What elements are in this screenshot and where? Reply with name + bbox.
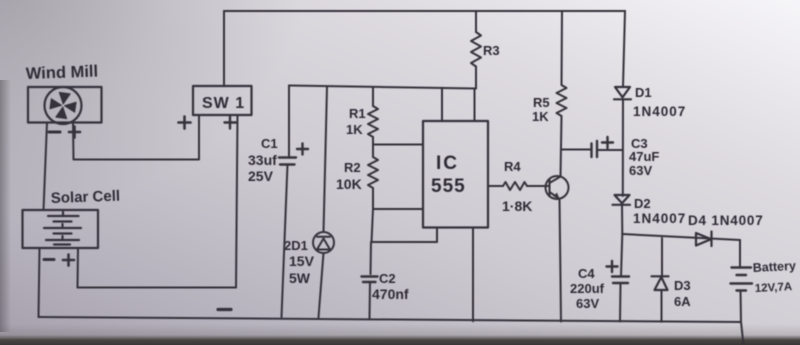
wire D-chain top [623,11,625,87]
svg-text:2D1: 2D1 [284,238,308,253]
wire mid rail [289,86,476,89]
svg-text:IC: IC [436,153,459,174]
resistor R5 [557,85,567,116]
wire windmill minus to solar [44,123,48,211]
svg-text:1K: 1K [346,122,363,137]
wire junction to IC pin [373,144,423,146]
wire D3 drop [661,238,663,276]
svg-text:15V: 15V [289,253,315,269]
svg-text:D3: D3 [674,278,691,293]
svg-text:Battery: Battery [752,259,796,275]
diode D2 [613,195,631,205]
paper left edge shadow [0,80,11,332]
C4 plus sign [607,261,618,272]
wire R1-R2 junction [372,137,374,157]
solar minus sign [44,258,54,261]
capacitor C2 [362,277,378,283]
wire C4 to bottom rail [619,283,622,322]
svg-text:R2: R2 [344,160,361,175]
wire IC right pin to R4 [488,185,503,187]
svg-text:R4: R4 [504,159,521,174]
SW1 box [193,86,252,115]
battery B1 [731,268,753,291]
svg-text:C2: C2 [379,271,396,286]
wire R3 bottom [475,67,477,89]
wire solar minus [39,248,40,317]
wire R3 top [475,11,477,32]
wire junction row to battery [622,234,740,240]
svg-text:Solar Cell: Solar Cell [51,188,121,207]
wire below rail to paper edge [741,322,744,345]
wire SW1 top pin [223,11,225,86]
windmill box [28,87,102,123]
paper top-left corner shading [0,0,360,280]
wire C3 to D-chain [598,149,623,151]
resistor R3 [471,32,481,67]
diode D3 [652,276,669,290]
wire D3 to bottom rail [661,290,663,322]
wire collector to C3 [561,149,591,151]
wire to IC bottom pin [372,228,438,243]
svg-text:63V: 63V [576,296,599,311]
wire zener bottom [319,253,324,317]
svg-text:1N4007: 1N4007 [633,104,686,119]
SW1 plus left [179,117,191,129]
wire SW1 right pin [236,115,238,288]
diode D4 [696,232,712,247]
windmill rotor [45,87,82,124]
SW1 plus right [225,117,237,129]
IC 555 box [423,121,488,228]
wire top rail [224,10,625,12]
svg-text:25V: 25V [248,168,274,184]
svg-text:47uF: 47uF [629,149,659,164]
wire R2 to IC pin2 [373,208,423,210]
wire IC top pin2 [474,89,476,121]
svg-text:1K: 1K [532,109,549,124]
resistor R1 [368,106,378,137]
wire R2 bottom [372,188,374,209]
svg-text:12V,7A: 12V,7A [755,281,793,295]
svg-text:1·8K: 1·8K [502,198,532,214]
svg-text:C4: C4 [578,266,595,281]
svg-text:C1: C1 [261,136,278,151]
svg-text:D2: D2 [634,196,651,211]
wire C2 top [370,242,373,274]
wire zener top [324,87,328,232]
capacitor C1 [279,158,296,165]
wire D2 to junction [621,205,623,234]
wire windmill plus [72,123,75,160]
svg-text:R1: R1 [349,106,366,121]
wire R5 to transistor collector [561,116,562,177]
wire R1 top [372,88,374,107]
svg-text:D1: D1 [635,85,652,100]
wire IC bottom pin2 [472,228,474,322]
svg-text:Wind Mill: Wind Mill [26,62,99,83]
svg-text:D4 1N4007: D4 1N4007 [688,213,764,228]
windmill minus sign [49,131,60,134]
svg-text:R3: R3 [483,43,500,58]
resistor R4 [503,182,527,190]
svg-text:555: 555 [431,176,466,197]
svg-text:33uf: 33uf [248,152,277,168]
wire IC top pin1 [441,88,443,121]
bottom rail minus sign [218,308,231,311]
wire solar plus horizontal [78,287,237,289]
wire C2 bottom [369,282,372,319]
resistor R2 [368,157,378,188]
svg-text:6A: 6A [674,294,691,309]
wire R5 top [561,11,564,85]
diode D1 [614,87,631,99]
wire emitter down [560,199,562,322]
svg-text:220uf: 220uf [570,281,605,296]
transistor Q1 [546,176,569,199]
wire junction down to C4 [621,234,622,276]
wire SW1 left pin [74,115,199,160]
wire battery top [739,240,741,267]
svg-text:SW 1: SW 1 [202,95,245,112]
svg-text:63V: 63V [629,163,652,178]
solar cell plates [44,212,81,245]
svg-text:5W: 5W [289,270,311,286]
solar cell box [23,210,99,248]
svg-text:1N4007: 1N4007 [633,211,686,226]
windmill plus sign [69,127,80,138]
zener 2D1 [313,232,334,253]
wire R4 to base [527,185,548,187]
C3 plus sign [602,137,613,148]
svg-text:10K: 10K [336,176,362,192]
wire solar plus [77,248,80,288]
wire C1 bottom [282,165,288,318]
wire C1 top [288,86,290,158]
capacitor C3 [592,141,598,157]
wire D1 to D2 [622,100,624,197]
wire R2 down [372,209,374,242]
svg-text:470nf: 470nf [372,286,409,302]
paper bottom dark band [0,324,800,345]
wire battery bottom [740,291,743,322]
C1 plus sign [297,144,308,155]
capacitor C4 [612,277,629,284]
svg-text:R5: R5 [533,95,550,110]
solar plus sign [63,255,74,266]
wire bottom rail [39,317,742,322]
